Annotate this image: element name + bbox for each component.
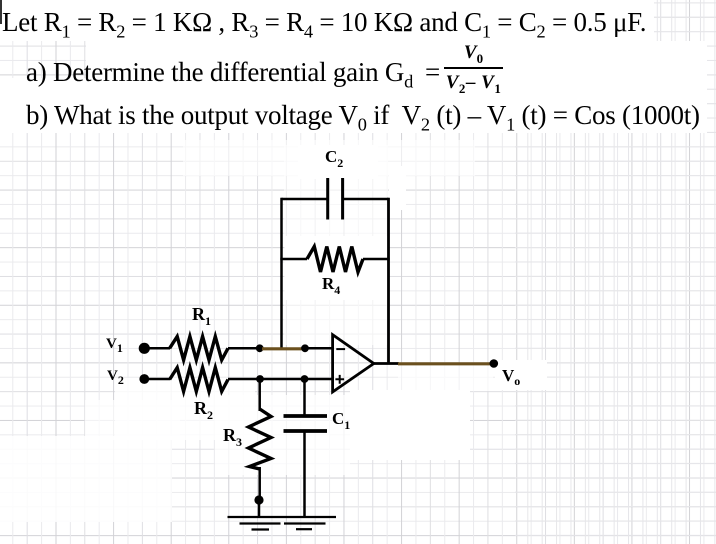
wire node C down to R3 [258, 379, 261, 411]
problem text line 2 [26, 59, 413, 86]
white paper patches [0, 0, 654, 41]
wire R2 to node C [228, 378, 260, 381]
gain fraction Vo / (V2 - V1) [444, 43, 503, 92]
resistor R4 zigzag [307, 247, 363, 273]
wire R1 to node A [228, 347, 259, 350]
label C1 [332, 410, 350, 427]
node B junction dot (inverting input) [301, 344, 309, 352]
wire non-inverting input to op-amp [305, 378, 334, 381]
label R3 [223, 426, 242, 444]
node C junction dot [256, 375, 264, 383]
resistor R3 zigzag [249, 409, 272, 469]
problem text line 1 [2, 9, 646, 36]
wire C1 to ground [303, 432, 306, 517]
resistor R4 right lead [363, 258, 390, 261]
wire node E to ground [258, 500, 261, 517]
equals sign before fraction [425, 59, 440, 86]
label C2 [325, 148, 343, 165]
op-amp U1 triangle [333, 335, 374, 392]
capacitor C1 top plate [284, 414, 328, 418]
label Vo [502, 367, 520, 384]
capacitor C2 right plate [341, 178, 344, 220]
capacitor C2 top wire left [282, 198, 328, 201]
ground left middle bar [240, 522, 281, 524]
label V2 [107, 369, 124, 384]
ground left short bar [252, 528, 270, 530]
label R2 [194, 399, 213, 417]
problem text line 3 [26, 102, 700, 129]
resistor R4 left lead [280, 258, 307, 261]
wire brown segment node A to inverting input node [262, 347, 303, 350]
wire output brown segment [398, 362, 491, 365]
op-amp plus sign [335, 375, 344, 384]
node A junction dot [256, 344, 264, 352]
ground top long bar [228, 516, 337, 518]
terminal V1 dot [139, 343, 150, 354]
scan edge mark top-left [0, 0, 2, 24]
node E junction dot above ground [254, 495, 263, 504]
ground right short bar [296, 528, 312, 530]
wire feedback right rail [387, 198, 390, 364]
wire node D down to C1 [303, 379, 306, 415]
capacitor C2 top wire right [343, 198, 389, 201]
wire op-amp output black [373, 362, 399, 365]
wire V1 lead [149, 347, 170, 350]
resistor R2 zigzag [170, 368, 228, 392]
op-amp minus sign [336, 348, 345, 350]
label R4 [322, 275, 340, 292]
node D junction dot (non-inverting input) [301, 375, 309, 383]
wire V2 lead [149, 378, 170, 381]
label V1 [106, 337, 123, 352]
ground right middle bar [284, 522, 326, 524]
wire feedback left rail [280, 198, 283, 349]
wire R3 to ground dot [258, 467, 261, 500]
label R1 [192, 305, 211, 323]
wire inverting input to op-amp [305, 347, 333, 350]
wire node C to node D [260, 378, 305, 381]
capacitor C2 left plate [326, 178, 329, 220]
capacitor C1 bottom plate [284, 429, 328, 433]
terminal V2 dot [139, 374, 149, 384]
terminal Vo dot [490, 359, 499, 368]
resistor R1 zigzag [170, 337, 228, 361]
